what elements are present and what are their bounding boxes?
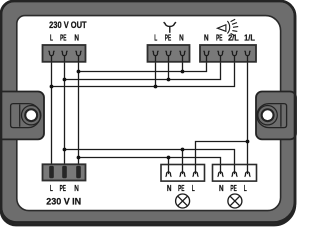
terminal X1-PE [62,51,68,56]
symbol: series switch [164,22,176,33]
node: PE / PE-rail [63,78,67,82]
svg-text:PE: PE [165,34,172,43]
node: 1/L branch [246,140,250,144]
svg-text:L: L [154,34,157,43]
wire: 1/L vertical down to lamp2 L [247,54,249,174]
svg-text:L: L [192,184,195,193]
wire: switch L drop [155,54,157,86]
wire: PE bottom rail [65,150,235,175]
svg-text:PE: PE [60,184,67,193]
svg-text:N: N [204,34,209,43]
svg-text:N: N [167,184,172,193]
symbol: lamp 2 [228,194,242,208]
wire: PE top rail [65,54,221,79]
svg-text:1/L: 1/L [244,34,255,43]
terminal X3-1/L [245,51,251,56]
svg-text:N: N [74,184,79,193]
wire: lamp1 PE stub [182,150,184,175]
wire: L vertical from 230V OUT down to 230V IN [51,54,53,166]
wire: L top rail to 2/L [52,54,235,86]
terminal X5-L [193,172,199,177]
wire: lamp1 N stub [168,158,170,175]
svg-text:L: L [50,34,53,43]
terminal X3-2/L [232,51,238,56]
wire: PE vertical from 230V OUT down to 230V IN [64,54,66,166]
node: switch N on N-rail [181,70,185,74]
svg-text:PE: PE [216,34,223,43]
right mounting lug [256,92,296,140]
terminal X3-PE [218,51,224,56]
terminal X2-L [153,51,159,56]
connector X1: 230 V OUT socket [43,45,86,62]
wire: N bottom rail [79,158,221,175]
pin X4-PE [62,166,67,178]
node: lamp1 N on bottom N-rail [167,156,171,160]
terminal X1-N [76,51,82,56]
terminal X6-PE [232,172,238,177]
connector X6: lamp outlet 2 [213,165,257,182]
wire: N top rail [79,54,207,71]
pin X4-L [49,166,54,178]
connector X3: luminaire cable socket N PE 2/L 1/L [200,45,256,62]
wire: switch N drop [182,54,184,71]
terminal X6-L [245,172,251,177]
node: PE / bottom PE-rail [63,148,67,152]
terminal X6-N [218,172,224,177]
terminal X3-N [204,51,210,56]
svg-text:2/L: 2/L [228,34,239,43]
junction dots [50,70,250,160]
node: L / L-rail [50,85,54,89]
node: lamp1 PE on bottom PE-rail [181,148,185,152]
terminal X2-PE [166,51,172,56]
svg-text:230 V OUT: 230 V OUT [49,20,87,30]
node: N / bottom N-rail [77,156,81,160]
terminal X5-PE [180,172,186,177]
svg-text:PE: PE [178,184,185,193]
wire: N vertical from 230V OUT down to 230V IN [78,54,80,166]
connector X4: 230 V IN plug [43,164,86,180]
connector X2: switch cable socket [148,45,190,62]
box interior [17,16,281,211]
svg-text:230 V IN: 230 V IN [46,196,81,206]
connector X5: lamp outlet 1 [161,165,205,182]
svg-text:N: N [219,184,224,193]
svg-text:L: L [50,184,53,193]
svg-text:L: L [244,184,247,193]
symbol: lamp 1 [176,194,190,208]
svg-text:N: N [179,34,184,43]
symbol: luminaire with rays [217,19,238,36]
svg-text:N: N [74,34,79,43]
terminal X2-N [180,51,186,56]
svg-text:PE: PE [60,34,67,43]
wire: 1/L branch to lamp1 L [196,142,248,175]
node: switch PE on PE-rail [167,78,171,82]
node: N / N-rail [77,70,81,74]
svg-text:PE: PE [230,184,237,193]
wire: switch PE drop [168,54,170,79]
terminal X5-N [166,172,172,177]
left mounting lug [0,92,44,140]
pin X4-N [76,166,81,178]
node: switch L on L-rail [154,85,158,89]
terminal X1-L [49,51,55,56]
